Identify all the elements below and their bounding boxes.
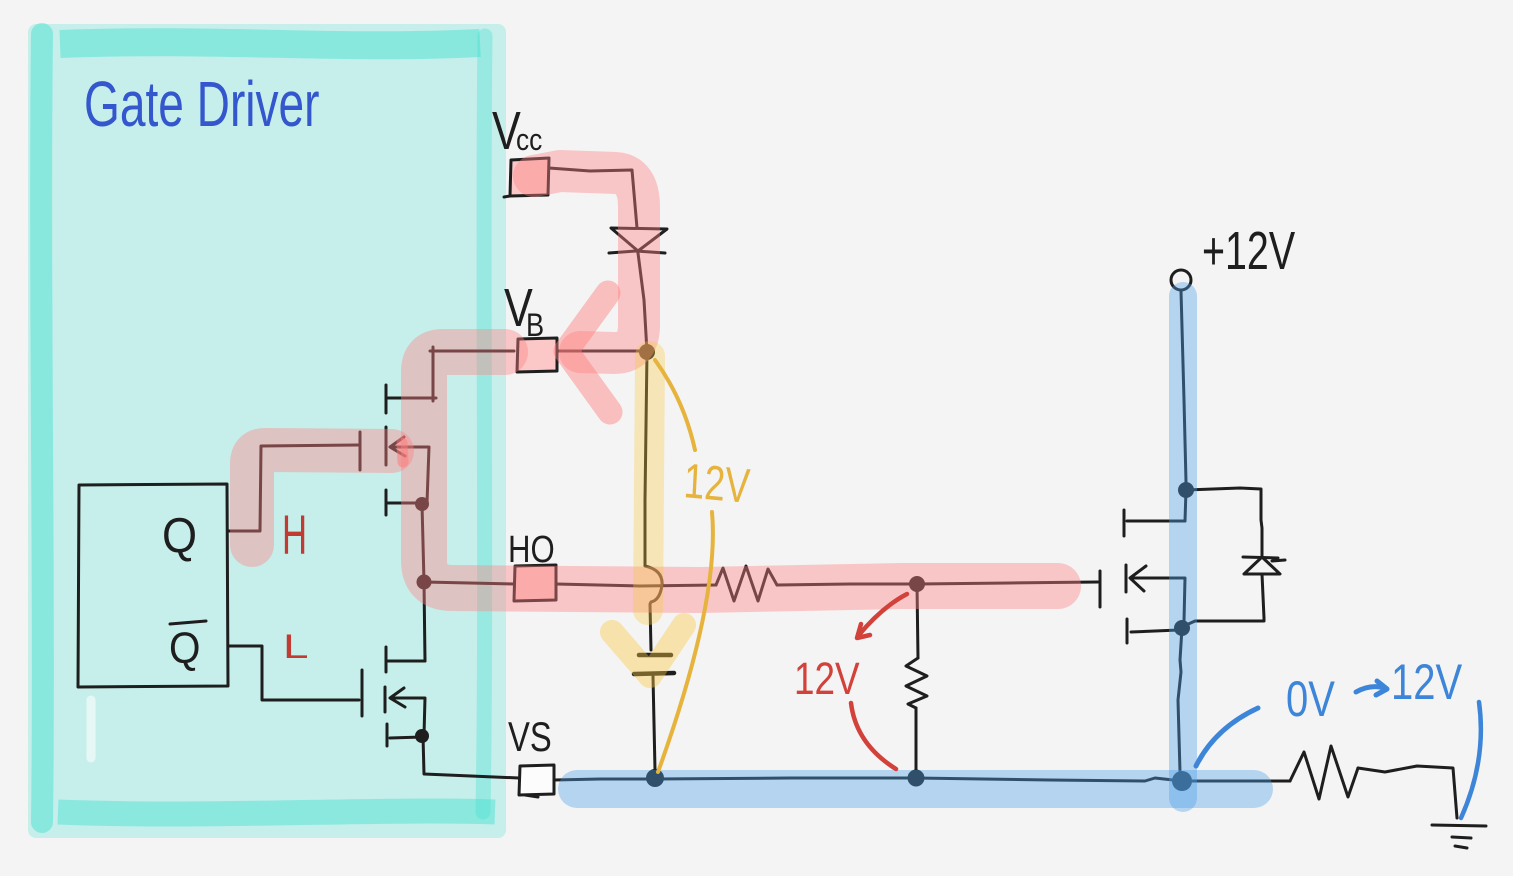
highlight pink blob at Q1 bbox=[402, 443, 403, 462]
wire Q output to Q1 gate bbox=[228, 445, 358, 531]
svg-text:VS: VS bbox=[508, 713, 552, 760]
annotation yellow arc VB to 12V label bbox=[655, 360, 695, 450]
wire Q3 source to VS rail bbox=[1178, 628, 1182, 772]
pin VS bbox=[519, 765, 554, 797]
wire pin HO to resistor R1 bbox=[556, 584, 716, 586]
diode D2 (body diode) bbox=[1243, 557, 1285, 574]
transistor Q3 (external MOSFET) bbox=[1100, 510, 1185, 643]
node Q3 source bbox=[1174, 620, 1190, 636]
node gate bbox=[909, 576, 925, 592]
node cap/VS bbox=[646, 769, 664, 787]
annotation blue swoosh to VS node bbox=[1196, 708, 1258, 766]
pin VB bbox=[517, 338, 557, 372]
label Q-bar bbox=[169, 621, 206, 672]
node VB bbox=[639, 344, 655, 360]
wire bootstrap cap branch with hop over HO line bbox=[645, 352, 662, 650]
pin HO bbox=[514, 565, 556, 601]
wire cap to VS rail bbox=[653, 676, 655, 770]
gate driver region highlight bbox=[28, 24, 506, 838]
wire Vcc to diode bbox=[549, 168, 637, 228]
transistor Q1 (driver high-side) bbox=[360, 385, 436, 515]
label 0V to 12V (blue) bbox=[1286, 654, 1462, 727]
svg-text:B: B bbox=[526, 308, 544, 344]
wire R1 to gate node bbox=[777, 584, 917, 585]
svg-text:L: L bbox=[283, 627, 309, 666]
svg-text:+12V: +12V bbox=[1202, 221, 1296, 282]
wire Q1 source to Q2 drain bbox=[422, 504, 425, 661]
svg-text:cc: cc bbox=[516, 123, 542, 157]
resistor R3 (load) bbox=[1290, 746, 1358, 799]
wire gate node to Q3 gate bbox=[917, 582, 1098, 584]
highlight pink path Q to Q1 gate bbox=[252, 450, 392, 545]
label Vcc bbox=[492, 102, 542, 162]
annotation red arc gate node to 12V label bbox=[857, 594, 907, 638]
wire body diode to source node bbox=[1184, 574, 1264, 626]
highlight pink path VB through Q1 to HO and gate bbox=[424, 352, 1058, 590]
svg-text:12V: 12V bbox=[682, 454, 751, 514]
capacitor C1 (bootstrap) bbox=[634, 655, 674, 674]
svg-text:Gate Driver: Gate Driver bbox=[84, 69, 320, 140]
svg-text:Q: Q bbox=[169, 623, 200, 672]
annotation yellow arc 12V label to VS bbox=[658, 512, 713, 772]
transistor Q2 (driver low-side) bbox=[362, 647, 425, 746]
flip-flop box (Q / Q-bar outputs) bbox=[78, 484, 228, 687]
pin Vcc bbox=[504, 158, 549, 197]
svg-text:12V: 12V bbox=[794, 654, 860, 704]
svg-text:HO: HO bbox=[508, 529, 555, 571]
highlight blue band +12V rail bbox=[1169, 296, 1197, 798]
terminal +12V bbox=[1171, 270, 1191, 290]
highlight yellow band on bootstrap branch bbox=[648, 356, 650, 610]
svg-text:12V: 12V bbox=[1391, 654, 1462, 710]
resistor R1 (gate resistor) bbox=[716, 566, 777, 601]
svg-text:0V: 0V bbox=[1286, 671, 1335, 727]
highlight blue band VS rail bbox=[577, 770, 1254, 808]
node R2/VS bbox=[908, 770, 925, 787]
wire Q1 drain to VB bbox=[430, 347, 514, 401]
wire drain node down to Q3 bbox=[1185, 490, 1186, 521]
node Q2 source bbox=[415, 729, 429, 743]
wire Q2 source to VS pin bbox=[423, 736, 519, 778]
wire body diode branch (drain side) bbox=[1186, 488, 1262, 556]
node VS/Q3 bbox=[1172, 771, 1192, 791]
highlight pink path Vcc to VB bbox=[534, 171, 639, 353]
ground bbox=[1432, 825, 1486, 848]
node Q1 source / HO bbox=[415, 497, 429, 511]
wire Q-bar output to Q2 gate bbox=[228, 646, 359, 700]
highlight pink arrowhead at VB bbox=[566, 293, 610, 412]
wire VS rail bbox=[554, 778, 1290, 781]
resistor R2 (gate-source pulldown) bbox=[906, 584, 927, 770]
wire R3 to ground bbox=[1358, 766, 1457, 818]
wire diode to node VB bbox=[638, 253, 647, 352]
highlight yellow arrowhead at cap bbox=[612, 625, 684, 676]
wire +12V rail to Q3 drain bbox=[1181, 291, 1186, 482]
annotation red arc 12V label to VS node bbox=[851, 703, 896, 769]
node HO junction bbox=[417, 575, 432, 590]
wire node VB to pin VB bbox=[557, 350, 647, 353]
label VB bbox=[504, 279, 544, 344]
svg-text:H: H bbox=[282, 504, 307, 567]
diode D1 (bootstrap) bbox=[609, 228, 667, 253]
annotation blue arc right of 12V to ground bbox=[1461, 702, 1481, 818]
node Q3 drain bbox=[1178, 482, 1194, 498]
svg-text:Q: Q bbox=[162, 507, 197, 562]
wire HO node to pin HO bbox=[424, 582, 516, 584]
